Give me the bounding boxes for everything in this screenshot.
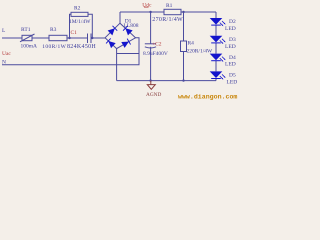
capacitor C2 plates [145, 43, 156, 45]
svg-text:R4: R4 [188, 41, 195, 47]
junction dot R4 top [182, 11, 184, 13]
svg-text:R2: R2 [74, 6, 81, 12]
svg-text:AGND: AGND [146, 92, 161, 98]
svg-text:D2: D2 [229, 19, 236, 25]
RT1 slash [20, 34, 35, 42]
svg-text:N: N [2, 60, 6, 66]
resistor R2 [71, 12, 88, 16]
wire RT1 to R3 [32, 37, 49, 39]
svg-text:8.9uF400V: 8.9uF400V [143, 51, 168, 57]
svg-text:D3: D3 [229, 37, 236, 43]
junction dot AGND [149, 79, 151, 81]
junction dot R4 bottom [182, 79, 184, 81]
LED D5 [210, 71, 226, 79]
svg-text:220R/1/4W: 220R/1/4W [187, 48, 213, 54]
wire L line [2, 37, 22, 39]
bottom rail [117, 80, 216, 82]
LED D2 [210, 18, 226, 80]
svg-text:LED: LED [227, 79, 238, 85]
bridge D1 outline [105, 23, 136, 48]
C2 column bottom [150, 47, 152, 81]
R2 loop left leg [70, 14, 72, 38]
junction dot Udc [149, 11, 151, 13]
bridge diode top-right [123, 26, 133, 36]
bridge diode top-left [106, 26, 133, 48]
resistor RT1 [22, 35, 32, 40]
svg-text:D4: D4 [229, 55, 236, 61]
top rail R1 right [181, 11, 216, 13]
bridge diode bottom-left [106, 38, 116, 48]
svg-text:LED: LED [225, 26, 236, 32]
LED column [215, 12, 217, 18]
svg-text:100R/1W: 100R/1W [42, 44, 66, 50]
svg-text:Uac: Uac [2, 51, 11, 57]
resistor R1 [164, 9, 181, 14]
ground AGND [147, 81, 155, 90]
wire C1 to bridge [91, 37, 105, 39]
LED D3 [210, 36, 226, 44]
wire R3 to C1 [67, 37, 88, 39]
junction dot A [68, 37, 70, 39]
top rail Udc [120, 11, 164, 13]
svg-text:100mA: 100mA [21, 44, 38, 50]
svg-text:R3: R3 [50, 27, 57, 33]
C2 column top [150, 12, 152, 44]
bridge diode bottom-right [121, 39, 130, 48]
svg-text:LED: LED [225, 62, 236, 68]
wire bridge top to rail [119, 12, 121, 23]
svg-text:824K450H: 824K450H [67, 44, 96, 50]
resistor R3 [49, 35, 67, 40]
svg-text:D5: D5 [229, 73, 236, 79]
svg-text:+C2: +C2 [152, 41, 162, 47]
wire bridge bottom down [116, 49, 118, 81]
junction dot B [91, 37, 93, 39]
svg-text:R1: R1 [166, 3, 173, 9]
svg-text:LED: LED [225, 44, 236, 50]
LED D4 [210, 54, 226, 62]
svg-text:1M/1/4W: 1M/1/4W [69, 19, 91, 25]
svg-text:270R/1/4W: 270R/1/4W [152, 17, 183, 23]
svg-text:LL808: LL808 [124, 23, 139, 29]
svg-text:C1: C1 [71, 30, 78, 36]
R2 loop right leg [88, 14, 92, 38]
R4 column [183, 12, 185, 41]
wire N line with staircase to bridge right vertex [2, 38, 139, 65]
capacitor C1 [87, 34, 89, 44]
wire staircase horizontal [117, 53, 139, 55]
svg-text:RT1: RT1 [21, 27, 31, 33]
resistor R4 [181, 41, 187, 52]
svg-text:www.diangon.com: www.diangon.com [178, 93, 237, 100]
